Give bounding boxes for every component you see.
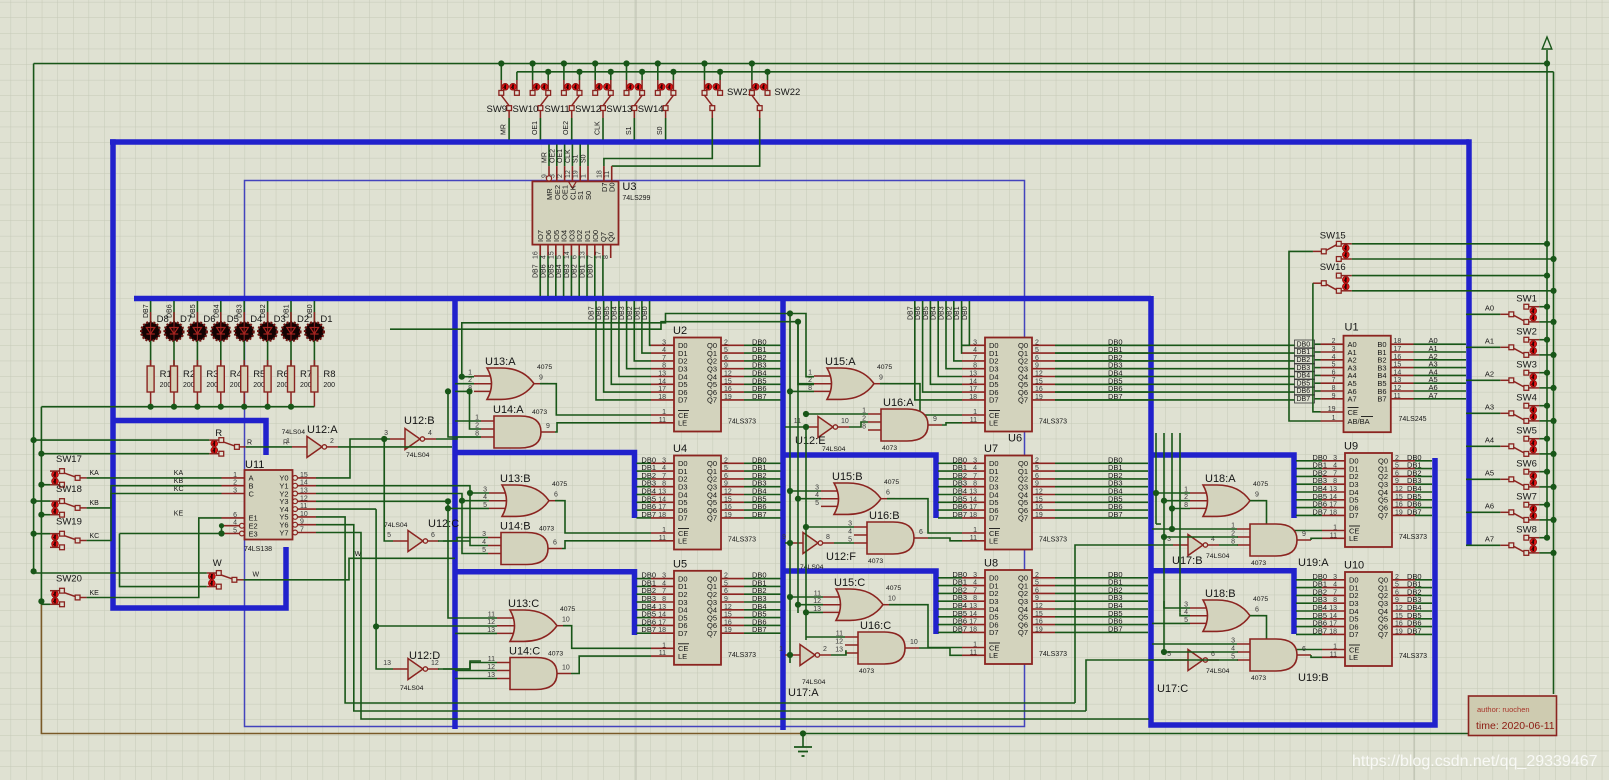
svg-text:4: 4 [848, 529, 852, 536]
svg-text:9: 9 [1035, 363, 1039, 370]
svg-text:4073: 4073 [859, 668, 874, 675]
svg-text:2: 2 [823, 646, 827, 653]
svg-text:11: 11 [659, 417, 666, 424]
svg-text:14: 14 [658, 378, 666, 385]
svg-text:author: ruochen: author: ruochen [1477, 705, 1530, 714]
svg-text:Q7: Q7 [1378, 630, 1388, 639]
svg-text:DB7: DB7 [641, 625, 656, 634]
svg-text:15: 15 [724, 496, 732, 503]
svg-text:16: 16 [1394, 354, 1402, 361]
svg-text:DB2: DB2 [946, 306, 953, 320]
svg-text:11: 11 [970, 417, 977, 424]
svg-text:R: R [247, 440, 252, 447]
svg-text:4075: 4075 [877, 364, 892, 371]
svg-text:200: 200 [300, 382, 312, 389]
svg-text:3: 3 [973, 339, 977, 346]
svg-text:DB2: DB2 [260, 304, 267, 318]
svg-text:LE: LE [1349, 653, 1358, 662]
svg-text:6: 6 [1035, 355, 1039, 362]
svg-text:15: 15 [1395, 613, 1403, 620]
svg-text:1: 1 [581, 174, 588, 178]
svg-text:U7: U7 [984, 443, 998, 455]
svg-text:DB7: DB7 [952, 510, 967, 519]
svg-text:U17:B: U17:B [1172, 555, 1203, 567]
svg-text:6: 6 [554, 492, 558, 499]
svg-text:14: 14 [300, 480, 308, 487]
svg-text:74LS04: 74LS04 [1206, 668, 1230, 675]
svg-text:10: 10 [841, 418, 849, 425]
svg-text:LE: LE [678, 419, 687, 428]
svg-text:R: R [215, 428, 222, 439]
svg-text:Q7: Q7 [707, 629, 717, 638]
svg-text:12: 12 [431, 660, 439, 667]
svg-text:U19:B: U19:B [1298, 672, 1329, 684]
svg-text:DB3: DB3 [564, 264, 571, 278]
svg-text:5: 5 [1395, 463, 1399, 470]
svg-text:9: 9 [879, 375, 883, 382]
svg-text:U9: U9 [1344, 441, 1358, 453]
svg-text:19: 19 [1395, 509, 1403, 516]
svg-text:18: 18 [596, 170, 603, 178]
svg-text:18: 18 [658, 394, 666, 401]
svg-text:D7: D7 [678, 514, 688, 523]
svg-text:12: 12 [565, 170, 572, 178]
svg-text:SW16: SW16 [1320, 262, 1346, 273]
svg-text:8: 8 [1333, 597, 1337, 604]
svg-text:DB7: DB7 [1108, 510, 1123, 519]
svg-text:DB2: DB2 [1297, 357, 1311, 364]
svg-text:A7: A7 [1485, 534, 1494, 543]
svg-text:SW9: SW9 [487, 104, 508, 115]
svg-text:15: 15 [1035, 611, 1043, 618]
svg-text:3: 3 [1332, 346, 1336, 353]
svg-text:11: 11 [659, 535, 666, 542]
svg-text:12: 12 [1395, 486, 1403, 493]
svg-text:DB4: DB4 [1297, 373, 1311, 380]
svg-text:A3: A3 [1485, 402, 1494, 411]
svg-text:16: 16 [1035, 386, 1043, 393]
svg-text:13: 13 [969, 371, 977, 378]
svg-text:9: 9 [1302, 531, 1306, 538]
svg-text:7: 7 [662, 588, 666, 595]
svg-text:14: 14 [1329, 613, 1337, 620]
svg-text:DB7: DB7 [1312, 626, 1327, 635]
svg-text:DB3: DB3 [1297, 365, 1311, 372]
svg-text:18: 18 [658, 627, 666, 634]
svg-text:4: 4 [662, 465, 666, 472]
svg-text:KE: KE [90, 590, 100, 597]
svg-text:16: 16 [724, 504, 732, 511]
svg-text:9: 9 [546, 423, 550, 430]
svg-text:13: 13 [835, 647, 843, 654]
svg-text:9: 9 [724, 481, 728, 488]
svg-text:DB2: DB2 [572, 264, 579, 278]
svg-text:6: 6 [1302, 646, 1306, 653]
svg-text:A1: A1 [1485, 336, 1494, 345]
svg-text:1: 1 [468, 370, 472, 377]
svg-text:200: 200 [323, 382, 335, 389]
svg-text:S1: S1 [626, 126, 633, 135]
svg-text:4073: 4073 [548, 651, 563, 658]
svg-text:14: 14 [969, 496, 977, 503]
svg-text:3: 3 [662, 457, 666, 464]
svg-text:6: 6 [1035, 587, 1039, 594]
svg-text:D7: D7 [1349, 630, 1359, 639]
svg-text:200: 200 [206, 382, 218, 389]
svg-text:4075: 4075 [537, 364, 552, 371]
svg-text:DB6: DB6 [1297, 388, 1311, 395]
svg-text:SW2: SW2 [1516, 326, 1537, 337]
svg-text:74LS04: 74LS04 [822, 446, 846, 453]
svg-text:1: 1 [1332, 415, 1336, 422]
svg-text:74LS373: 74LS373 [728, 419, 756, 426]
svg-text:200: 200 [253, 382, 265, 389]
svg-text:10: 10 [300, 511, 308, 518]
svg-text:DB2: DB2 [627, 306, 634, 320]
svg-text:14: 14 [658, 496, 666, 503]
svg-text:11: 11 [970, 649, 977, 656]
svg-text:9: 9 [1395, 597, 1399, 604]
svg-text:12: 12 [1035, 489, 1043, 496]
svg-text:4: 4 [541, 255, 548, 259]
svg-text:9: 9 [933, 416, 937, 423]
svg-text:10: 10 [888, 596, 896, 603]
svg-text:KB: KB [174, 478, 184, 485]
svg-text:7: 7 [662, 355, 666, 362]
svg-text:9: 9 [724, 363, 728, 370]
svg-text:3: 3 [973, 457, 977, 464]
svg-text:DB0: DB0 [587, 264, 594, 278]
svg-text:9: 9 [782, 534, 786, 541]
svg-text:LE: LE [678, 537, 687, 546]
svg-text:SW3: SW3 [1516, 359, 1537, 370]
svg-text:SW13: SW13 [606, 104, 632, 115]
svg-text:DB5: DB5 [548, 264, 555, 278]
svg-text:8: 8 [973, 481, 977, 488]
svg-text:LE: LE [989, 651, 998, 660]
svg-text:74LS04: 74LS04 [282, 429, 306, 436]
svg-text:D7: D7 [989, 396, 999, 405]
svg-text:9: 9 [1035, 481, 1039, 488]
svg-text:3: 3 [662, 339, 666, 346]
svg-text:W: W [253, 572, 260, 579]
svg-text:74LS373: 74LS373 [728, 652, 756, 659]
svg-text:DB7: DB7 [752, 392, 767, 401]
svg-text:74LS299: 74LS299 [622, 195, 650, 202]
svg-text:7: 7 [1332, 377, 1336, 384]
svg-text:C: C [249, 489, 255, 498]
svg-text:DB5: DB5 [604, 306, 611, 320]
svg-text:4: 4 [662, 580, 666, 587]
svg-text:4: 4 [428, 430, 432, 437]
svg-text:DB0: DB0 [642, 306, 649, 320]
svg-text:12: 12 [300, 495, 308, 502]
svg-text:SW11: SW11 [545, 104, 570, 115]
svg-text:DB1: DB1 [954, 306, 961, 320]
svg-text:15: 15 [1035, 378, 1043, 385]
svg-text:5: 5 [815, 500, 819, 507]
svg-text:DB7: DB7 [589, 306, 596, 320]
svg-text:S0: S0 [584, 191, 593, 200]
svg-text:12: 12 [487, 619, 495, 626]
svg-text:A5: A5 [1485, 468, 1494, 477]
svg-text:DB7: DB7 [907, 306, 914, 320]
svg-text:11: 11 [970, 535, 977, 542]
svg-text:5: 5 [1332, 362, 1336, 369]
svg-text:U19:A: U19:A [1298, 557, 1329, 569]
svg-text:DB7: DB7 [752, 510, 767, 519]
svg-text:LE: LE [678, 652, 687, 661]
svg-text:5: 5 [1395, 582, 1399, 589]
svg-text:DB3: DB3 [619, 306, 626, 320]
svg-text:LE: LE [989, 537, 998, 546]
svg-text:11: 11 [300, 503, 307, 510]
svg-text:15: 15 [1035, 496, 1043, 503]
svg-text:S1: S1 [573, 154, 580, 163]
svg-text:U15:C: U15:C [834, 577, 865, 589]
svg-text:5: 5 [724, 465, 728, 472]
svg-text:19: 19 [1395, 628, 1403, 635]
svg-text:6: 6 [553, 540, 557, 547]
svg-text:https://blog.csdn.net/qq_29339: https://blog.csdn.net/qq_29339467 [1352, 753, 1598, 770]
svg-text:4073: 4073 [539, 526, 554, 533]
svg-text:A6: A6 [1485, 501, 1494, 510]
svg-text:6: 6 [886, 490, 890, 497]
svg-text:18: 18 [658, 512, 666, 519]
svg-text:74LS373: 74LS373 [1399, 534, 1427, 541]
svg-text:8: 8 [662, 596, 666, 603]
svg-text:18: 18 [1394, 338, 1402, 345]
svg-text:DB7: DB7 [641, 510, 656, 519]
svg-text:AB/BA: AB/BA [1348, 417, 1370, 426]
svg-text:U8: U8 [984, 558, 998, 570]
svg-text:CLK: CLK [565, 149, 572, 163]
svg-text:6: 6 [233, 512, 237, 519]
svg-text:8: 8 [973, 363, 977, 370]
svg-text:200: 200 [230, 382, 242, 389]
svg-text:time: 2020-06-11: time: 2020-06-11 [1476, 720, 1555, 732]
svg-text:74LS04: 74LS04 [406, 452, 430, 459]
svg-text:74LS04: 74LS04 [802, 679, 826, 686]
svg-text:A0: A0 [1485, 303, 1494, 312]
svg-text:13: 13 [969, 603, 977, 610]
svg-text:DB6: DB6 [541, 264, 548, 278]
svg-text:U4: U4 [673, 443, 687, 455]
svg-text:DB5: DB5 [923, 306, 930, 320]
svg-text:U13:A: U13:A [485, 356, 516, 368]
svg-text:4075: 4075 [884, 479, 899, 486]
svg-text:A4: A4 [1485, 435, 1494, 444]
svg-text:12: 12 [1035, 603, 1043, 610]
svg-text:12: 12 [724, 604, 732, 611]
svg-text:14: 14 [1329, 494, 1337, 501]
svg-text:74LS373: 74LS373 [1039, 651, 1067, 658]
svg-text:2: 2 [1395, 574, 1399, 581]
svg-text:SW7: SW7 [1516, 491, 1537, 502]
svg-text:A2: A2 [1485, 369, 1494, 378]
svg-text:8: 8 [662, 481, 666, 488]
svg-text:4073: 4073 [882, 445, 897, 452]
svg-text:U3: U3 [622, 181, 636, 193]
svg-text:5: 5 [387, 532, 391, 539]
svg-text:19: 19 [724, 627, 732, 634]
svg-text:12: 12 [835, 639, 843, 646]
svg-text:9: 9 [300, 519, 304, 526]
svg-text:U16:A: U16:A [883, 397, 914, 409]
svg-text:D7: D7 [1349, 511, 1359, 520]
svg-text:2: 2 [724, 457, 728, 464]
svg-text:Y7: Y7 [279, 528, 288, 537]
svg-text:2: 2 [1035, 572, 1039, 579]
svg-text:SW19: SW19 [56, 517, 82, 528]
svg-text:12: 12 [1035, 371, 1043, 378]
svg-text:KC: KC [174, 486, 184, 493]
svg-text:7: 7 [587, 255, 594, 259]
svg-text:DB4: DB4 [611, 306, 618, 320]
svg-text:MR: MR [542, 152, 549, 163]
svg-text:14: 14 [564, 251, 571, 259]
svg-text:S0: S0 [657, 126, 664, 135]
svg-text:8: 8 [973, 595, 977, 602]
svg-text:74LS04: 74LS04 [400, 685, 424, 692]
svg-text:4: 4 [973, 465, 977, 472]
svg-text:2: 2 [1332, 338, 1336, 345]
svg-text:DB0: DB0 [1297, 341, 1311, 348]
svg-text:12: 12 [1395, 605, 1403, 612]
svg-text:7: 7 [973, 355, 977, 362]
svg-text:7: 7 [662, 473, 666, 480]
svg-text:74LS04: 74LS04 [384, 522, 408, 529]
svg-text:DB7: DB7 [752, 625, 767, 634]
svg-text:8: 8 [603, 255, 610, 259]
svg-text:KC: KC [90, 533, 100, 540]
svg-text:12: 12 [724, 489, 732, 496]
svg-text:2: 2 [1395, 455, 1399, 462]
svg-text:DB7: DB7 [533, 264, 540, 278]
svg-text:16: 16 [1395, 502, 1403, 509]
svg-text:DB6: DB6 [167, 304, 174, 318]
svg-text:DB7: DB7 [1108, 624, 1123, 633]
svg-text:DB1: DB1 [580, 264, 587, 278]
svg-text:1: 1 [1333, 525, 1337, 532]
svg-text:17: 17 [1329, 621, 1337, 628]
svg-text:9: 9 [724, 596, 728, 603]
svg-text:11: 11 [1330, 651, 1337, 658]
svg-text:R8: R8 [323, 369, 335, 380]
svg-text:LE: LE [989, 419, 998, 428]
svg-text:Q0: Q0 [607, 232, 616, 242]
svg-text:12: 12 [724, 371, 732, 378]
svg-text:DB7: DB7 [952, 624, 967, 633]
svg-text:9: 9 [1255, 492, 1259, 499]
svg-text:9: 9 [539, 375, 543, 382]
svg-text:U14:C: U14:C [509, 646, 540, 658]
svg-text:4073: 4073 [868, 558, 883, 565]
svg-text:3: 3 [233, 488, 237, 495]
svg-text:4075: 4075 [552, 481, 567, 488]
svg-text:7: 7 [1333, 589, 1337, 596]
svg-text:DB1: DB1 [284, 304, 291, 318]
svg-text:1: 1 [662, 527, 666, 534]
svg-text:5: 5 [1035, 347, 1039, 354]
svg-text:6: 6 [572, 255, 579, 259]
svg-text:6: 6 [724, 588, 728, 595]
svg-text:13: 13 [658, 604, 666, 611]
svg-text:11: 11 [1330, 532, 1337, 539]
svg-text:SW4: SW4 [1516, 392, 1537, 403]
svg-text:7: 7 [973, 587, 977, 594]
svg-text:2: 2 [1035, 339, 1039, 346]
svg-text:2: 2 [557, 174, 564, 178]
svg-text:15: 15 [548, 251, 555, 259]
svg-text:OE2: OE2 [563, 121, 570, 135]
svg-text:LE: LE [1349, 534, 1358, 543]
svg-text:15: 15 [300, 472, 308, 479]
svg-text:W: W [213, 558, 222, 569]
svg-text:13: 13 [658, 489, 666, 496]
svg-text:6: 6 [1395, 470, 1399, 477]
svg-text:10: 10 [562, 617, 570, 624]
svg-text:U13:B: U13:B [500, 473, 531, 485]
svg-text:U17:C: U17:C [1157, 683, 1188, 695]
svg-text:17: 17 [658, 619, 666, 626]
svg-text:6: 6 [1035, 473, 1039, 480]
svg-text:18: 18 [969, 394, 977, 401]
svg-text:KE: KE [174, 511, 184, 518]
svg-text:19: 19 [724, 512, 732, 519]
svg-text:U12:C: U12:C [428, 518, 459, 530]
svg-text:D7: D7 [989, 628, 999, 637]
svg-text:DB0: DB0 [307, 304, 314, 318]
svg-text:KA: KA [90, 470, 100, 477]
svg-text:18: 18 [1329, 628, 1337, 635]
svg-text:74LS138: 74LS138 [244, 546, 272, 553]
svg-text:U15:A: U15:A [825, 356, 856, 368]
svg-text:13: 13 [1394, 377, 1402, 384]
svg-text:16: 16 [724, 386, 732, 393]
svg-text:Q7: Q7 [707, 514, 717, 523]
svg-text:4073: 4073 [1251, 675, 1266, 682]
svg-text:5: 5 [556, 255, 563, 259]
svg-text:SW6: SW6 [1516, 458, 1537, 469]
svg-text:DB7: DB7 [1297, 396, 1311, 403]
svg-text:10: 10 [910, 639, 918, 646]
svg-text:DB7: DB7 [1407, 507, 1422, 516]
svg-text:13: 13 [658, 371, 666, 378]
svg-text:10: 10 [562, 665, 570, 672]
svg-text:16: 16 [1035, 504, 1043, 511]
svg-text:9: 9 [1395, 478, 1399, 485]
svg-text:17: 17 [1329, 502, 1337, 509]
svg-text:2: 2 [1035, 457, 1039, 464]
svg-text:SW17: SW17 [56, 454, 82, 465]
svg-text:SW20: SW20 [56, 574, 82, 585]
svg-text:U12:F: U12:F [826, 551, 856, 563]
svg-text:1: 1 [233, 472, 237, 479]
svg-text:DB6: DB6 [596, 306, 603, 320]
svg-text:1: 1 [662, 642, 666, 649]
svg-text:4: 4 [233, 520, 237, 527]
svg-text:U11: U11 [245, 459, 264, 471]
svg-text:6: 6 [724, 473, 728, 480]
svg-text:8: 8 [1333, 478, 1337, 485]
svg-text:15: 15 [724, 612, 732, 619]
svg-text:U18:B: U18:B [1205, 588, 1236, 600]
svg-text:2: 2 [233, 480, 237, 487]
svg-text:1: 1 [662, 409, 666, 416]
svg-text:U14:B: U14:B [500, 521, 531, 533]
svg-text:8: 8 [662, 363, 666, 370]
